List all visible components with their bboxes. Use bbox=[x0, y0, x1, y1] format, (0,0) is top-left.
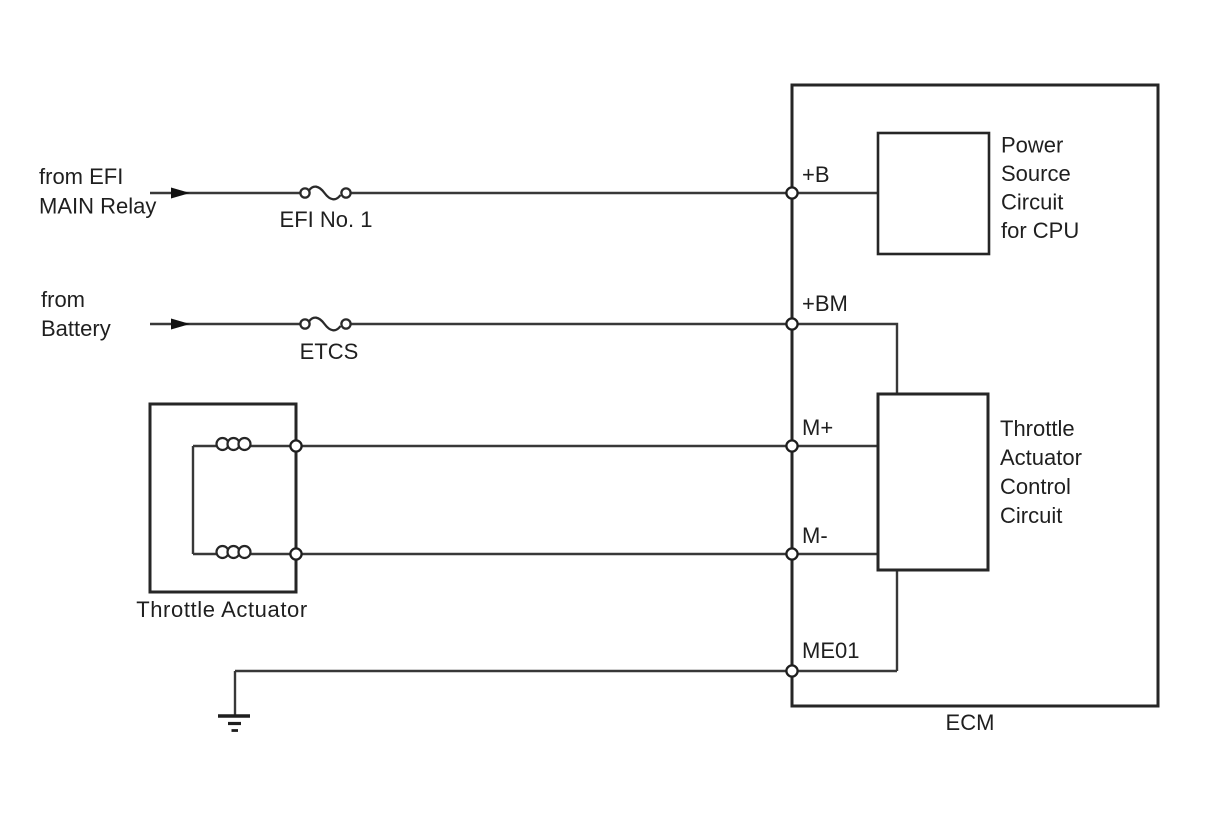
svg-text:Circuit: Circuit bbox=[1000, 503, 1062, 528]
svg-text:ME01: ME01 bbox=[802, 638, 859, 663]
svg-text:M+: M+ bbox=[802, 415, 833, 440]
svg-text:Source: Source bbox=[1001, 161, 1071, 186]
svg-text:from: from bbox=[41, 287, 85, 312]
svg-text:Throttle: Throttle bbox=[1000, 416, 1075, 441]
svg-text:Throttle Actuator: Throttle Actuator bbox=[136, 597, 308, 622]
svg-text:for CPU: for CPU bbox=[1001, 218, 1079, 243]
svg-text:Circuit: Circuit bbox=[1001, 190, 1063, 215]
svg-text:ETCS: ETCS bbox=[300, 339, 359, 364]
svg-text:Battery: Battery bbox=[41, 316, 111, 341]
svg-text:MAIN Relay: MAIN Relay bbox=[39, 194, 156, 219]
svg-text:+B: +B bbox=[802, 162, 830, 187]
svg-text:Control: Control bbox=[1000, 474, 1071, 499]
svg-text:EFI No. 1: EFI No. 1 bbox=[280, 207, 373, 232]
svg-text:ECM: ECM bbox=[946, 710, 995, 735]
svg-text:from EFI: from EFI bbox=[39, 164, 123, 189]
svg-text:Power: Power bbox=[1001, 133, 1063, 158]
svg-text:Actuator: Actuator bbox=[1000, 445, 1082, 470]
svg-text:+BM: +BM bbox=[802, 291, 848, 316]
svg-text:M-: M- bbox=[802, 523, 828, 548]
